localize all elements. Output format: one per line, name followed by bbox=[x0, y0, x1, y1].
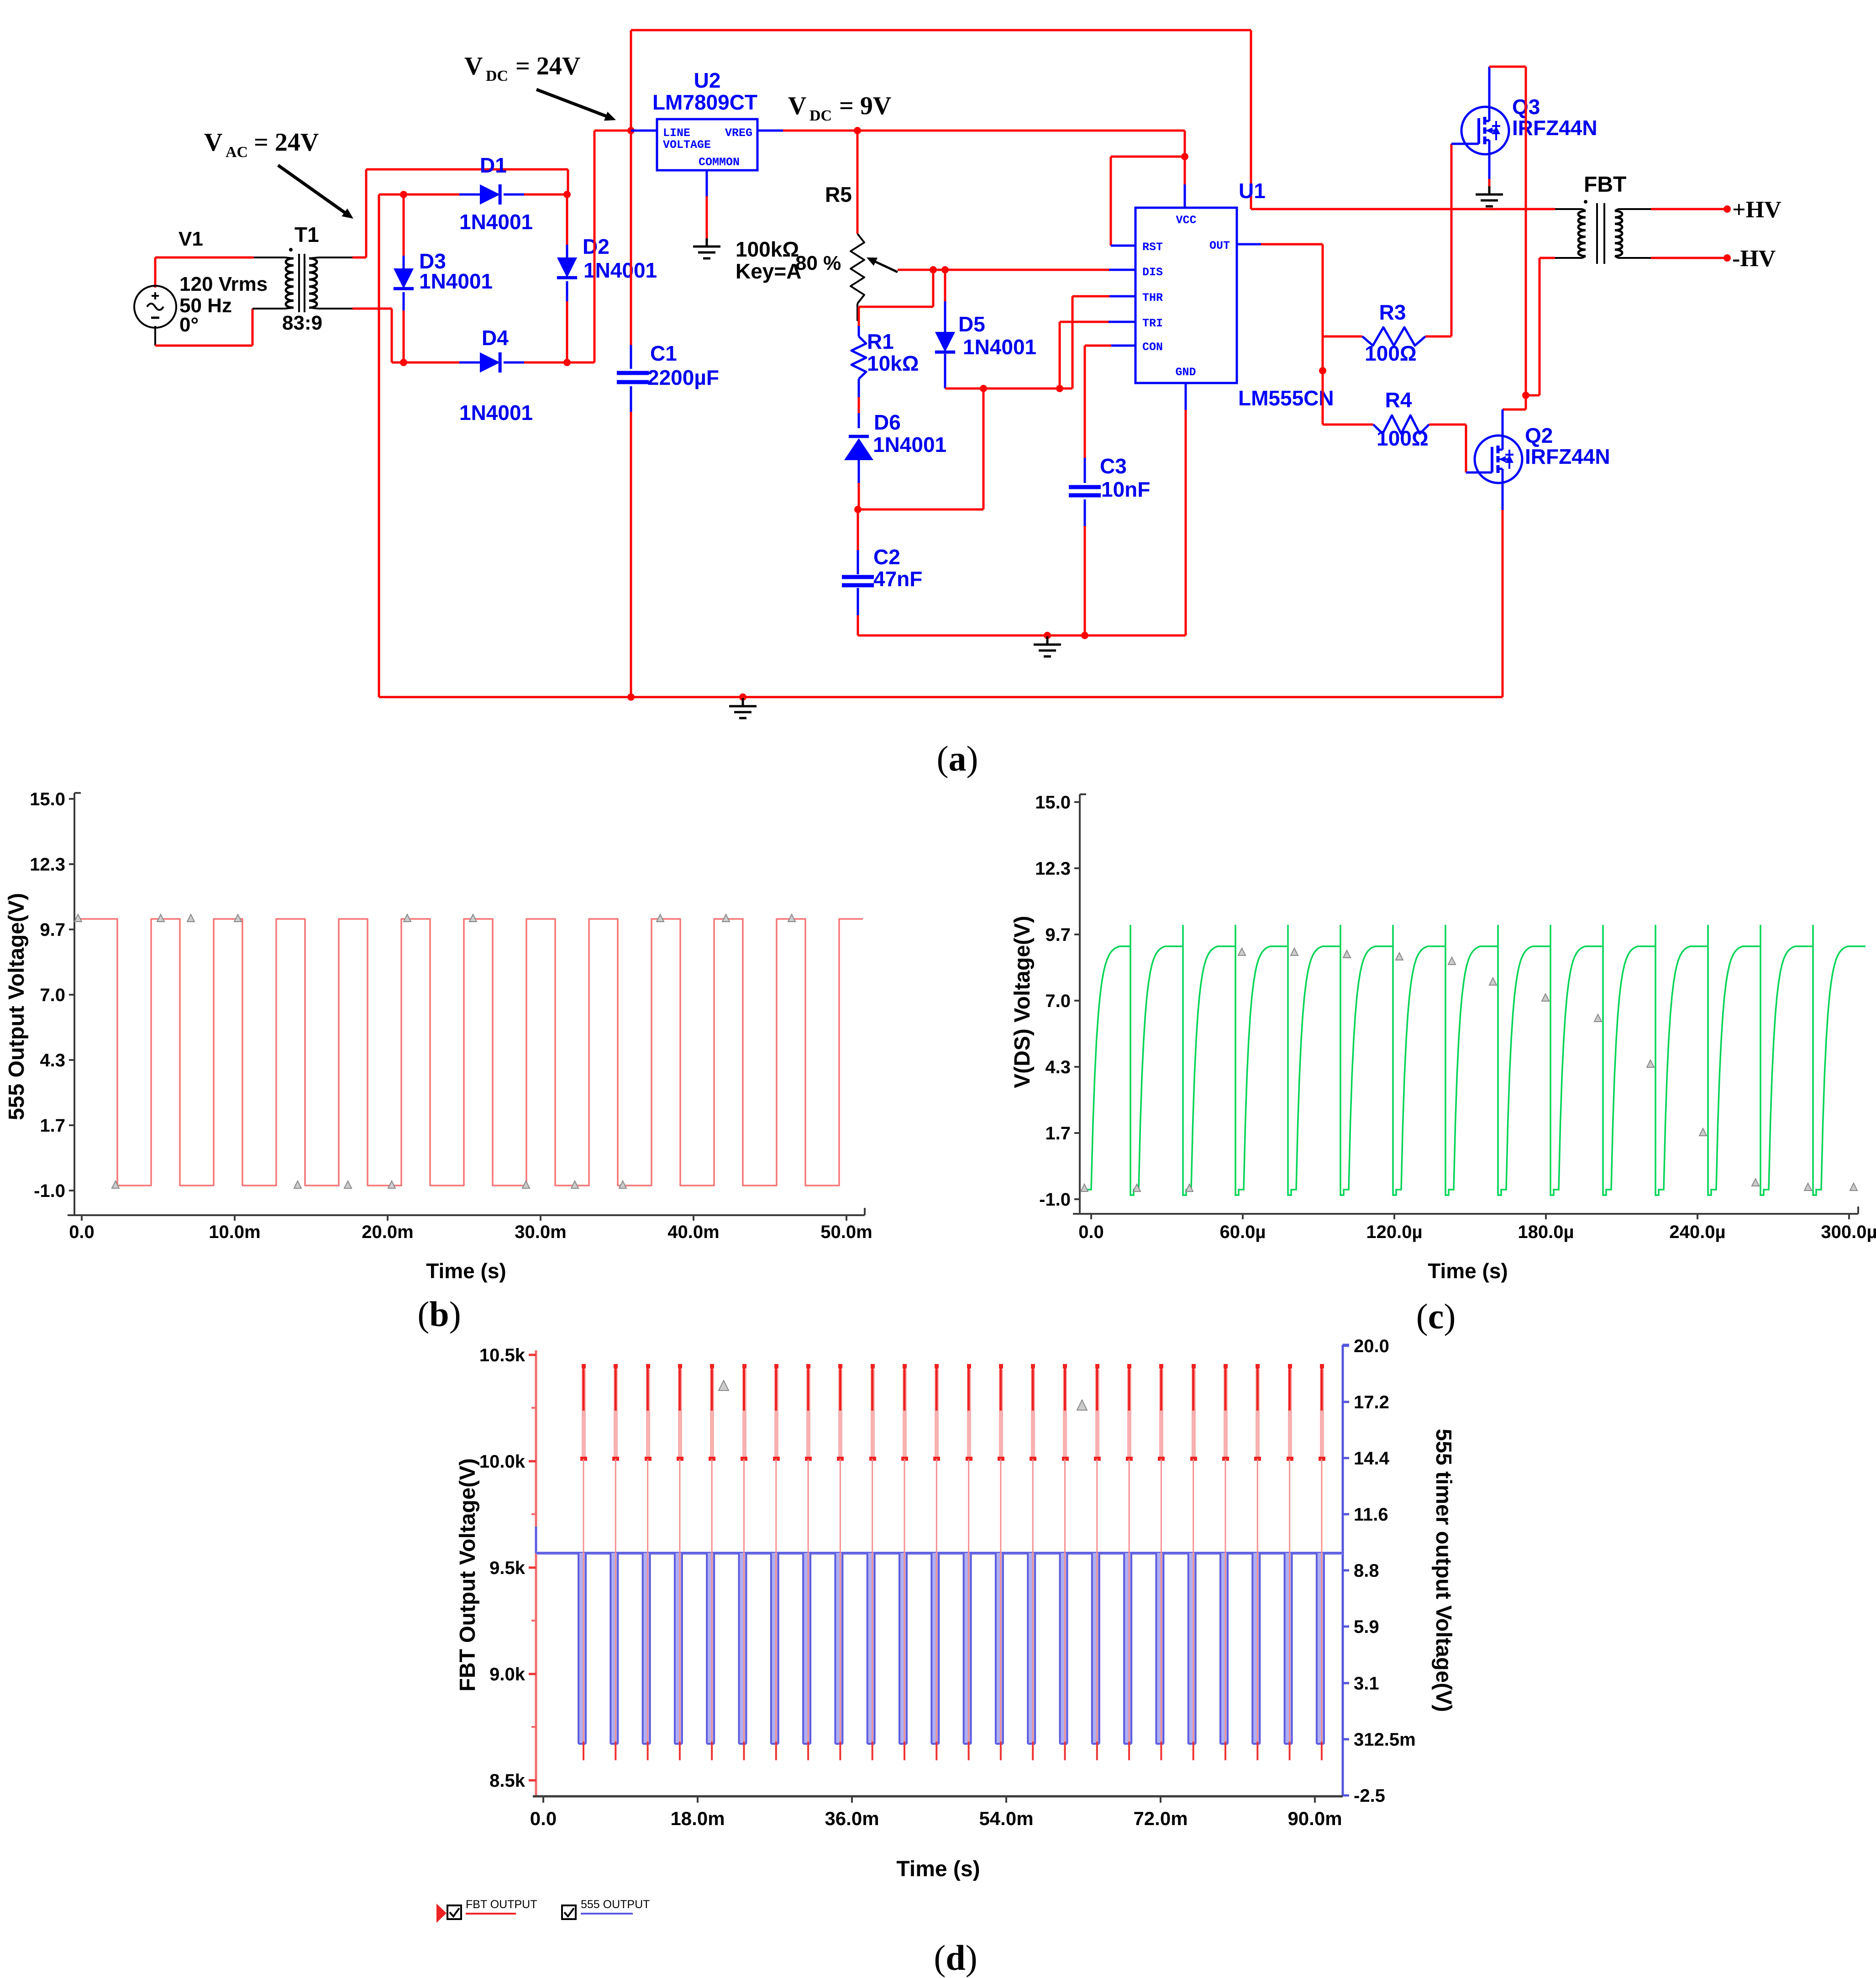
wire: junction to Q2 drain bbox=[1525, 395, 1527, 409]
svg-text:2200µF: 2200µF bbox=[647, 366, 719, 389]
svg-text:18.0m: 18.0m bbox=[670, 1808, 725, 1829]
svg-text:FBT Output Voltage(V): FBT Output Voltage(V) bbox=[456, 1458, 480, 1691]
plot d: right axis (blue) bbox=[1342, 1345, 1344, 1796]
svg-text:12.3: 12.3 bbox=[30, 855, 65, 875]
svg-text:-2.5: -2.5 bbox=[1354, 1786, 1385, 1806]
svg-text:10.5k: 10.5k bbox=[479, 1345, 525, 1365]
svg-text:1N4001: 1N4001 bbox=[873, 433, 946, 456]
svg-text:(a): (a) bbox=[937, 739, 978, 778]
svg-text:72.0m: 72.0m bbox=[1133, 1808, 1188, 1829]
resistor R1 bbox=[851, 336, 866, 379]
svg-text:COMMON: COMMON bbox=[699, 156, 740, 169]
source V1 bbox=[134, 286, 176, 328]
wire: +HV output bbox=[1651, 208, 1727, 210]
wire: Q3 source to ground bbox=[1488, 154, 1491, 179]
ground Q3 bbox=[1488, 186, 1491, 194]
svg-text:R5: R5 bbox=[825, 183, 852, 206]
svg-text:LM7809CT: LM7809CT bbox=[652, 90, 757, 114]
svg-text:47nF: 47nF bbox=[873, 567, 922, 591]
svg-text:4.3: 4.3 bbox=[40, 1050, 65, 1070]
svg-text:5.9: 5.9 bbox=[1354, 1617, 1379, 1637]
svg-text:VOLTAGE: VOLTAGE bbox=[663, 138, 711, 152]
plot d: FBT output trace (red) bbox=[582, 1369, 586, 1459]
svg-text:10.0k: 10.0k bbox=[479, 1452, 525, 1472]
svg-text:8.8: 8.8 bbox=[1354, 1561, 1379, 1581]
wire: D6 to junction bbox=[858, 460, 860, 483]
svg-text:C2: C2 bbox=[873, 545, 900, 569]
svg-text:9.7: 9.7 bbox=[40, 920, 65, 940]
wire: V1 bottom to T1 primary bottom bbox=[154, 326, 156, 346]
ground on C2/C3 rail bbox=[1046, 636, 1049, 645]
svg-text:U2: U2 bbox=[694, 68, 721, 92]
svg-text:312.5m: 312.5m bbox=[1354, 1730, 1416, 1750]
svg-text:9.0k: 9.0k bbox=[489, 1664, 525, 1684]
wire: U2 VREG output 9V rail bbox=[757, 130, 783, 132]
wire: D6 junction across to THR/TRI rail riser bbox=[858, 509, 983, 511]
svg-text:RST: RST bbox=[1142, 241, 1163, 254]
svg-text:Q2: Q2 bbox=[1525, 424, 1553, 447]
svg-text:Time (s): Time (s) bbox=[1428, 1259, 1508, 1283]
svg-text:V: V bbox=[464, 52, 483, 80]
wire: THR pin bbox=[1072, 296, 1074, 388]
node on ground rail bbox=[627, 693, 635, 701]
capacitor C2 bbox=[842, 575, 874, 579]
svg-text:8.5k: 8.5k bbox=[489, 1771, 525, 1791]
svg-text:100Ω: 100Ω bbox=[1377, 426, 1429, 450]
wire: 555 GND drop bbox=[1185, 383, 1187, 410]
wire: V1 top to T1 primary top bbox=[154, 257, 157, 288]
svg-text:555 timer output Voltage(V): 555 timer output Voltage(V) bbox=[1431, 1429, 1456, 1712]
svg-text:180.0µ: 180.0µ bbox=[1518, 1222, 1574, 1242]
svg-text:FBT: FBT bbox=[1584, 173, 1626, 197]
wire: Q3 drain loop bbox=[1488, 67, 1491, 107]
wire: node to R1 bbox=[932, 270, 935, 307]
svg-text:1N4001: 1N4001 bbox=[459, 401, 533, 425]
svg-text:100kΩ: 100kΩ bbox=[736, 237, 799, 261]
wire: main VDC=24V vertical with C1 bbox=[630, 30, 632, 131]
svg-text:0.0: 0.0 bbox=[69, 1222, 95, 1242]
svg-text:+HV: +HV bbox=[1732, 197, 1781, 223]
diode D5 with column bbox=[944, 270, 946, 301]
svg-text:D4: D4 bbox=[482, 326, 509, 350]
svg-text:120 Vrms: 120 Vrms bbox=[179, 273, 268, 295]
svg-text:T1: T1 bbox=[294, 223, 319, 247]
plot b: x-axis bbox=[68, 1214, 865, 1216]
plot b: y-axis bbox=[74, 793, 75, 1215]
wire: CON pin to C3 bbox=[1111, 345, 1135, 347]
svg-text:60.0µ: 60.0µ bbox=[1220, 1222, 1266, 1242]
svg-text:-1.0: -1.0 bbox=[1039, 1190, 1071, 1210]
svg-text:V: V bbox=[204, 128, 222, 157]
capacitor C1 bbox=[617, 371, 649, 375]
svg-text:20.0: 20.0 bbox=[1354, 1336, 1389, 1356]
svg-text:4.3: 4.3 bbox=[1045, 1057, 1071, 1077]
svg-text:50.0m: 50.0m bbox=[820, 1222, 872, 1242]
svg-text:0°: 0° bbox=[179, 314, 199, 336]
diode D3 bbox=[394, 268, 414, 289]
svg-text:30.0m: 30.0m bbox=[515, 1222, 566, 1242]
transistor Q3 bbox=[1461, 107, 1509, 154]
svg-text:-HV: -HV bbox=[1732, 246, 1776, 272]
svg-text:DC: DC bbox=[486, 68, 508, 84]
wire: wiper to DIS pin bbox=[898, 269, 1109, 271]
wire: VCC supply from 9V rail bbox=[1184, 131, 1186, 157]
svg-text:240.0µ: 240.0µ bbox=[1669, 1222, 1725, 1242]
svg-text:V1: V1 bbox=[179, 228, 203, 250]
svg-text:15.0: 15.0 bbox=[1035, 792, 1071, 813]
plot d: markers bbox=[719, 1380, 729, 1390]
svg-text:20.0m: 20.0m bbox=[362, 1222, 413, 1242]
wire: RST loop bbox=[1111, 156, 1185, 158]
diode D6 bbox=[849, 435, 869, 438]
wire: T1 secondary bottom to bridge bottom-left bbox=[319, 308, 352, 310]
diode D4 bbox=[480, 352, 500, 373]
svg-text:LINE: LINE bbox=[663, 126, 690, 140]
svg-text:FBT OUTPUT: FBT OUTPUT bbox=[466, 1898, 537, 1911]
svg-text:10nF: 10nF bbox=[1101, 477, 1150, 501]
plot d: legend 555 OUTPUT bbox=[562, 1905, 576, 1919]
svg-text:0.0: 0.0 bbox=[1078, 1222, 1104, 1242]
svg-text:80 %: 80 % bbox=[795, 252, 841, 274]
svg-text:0.0: 0.0 bbox=[530, 1808, 557, 1829]
arrow for VAC bbox=[278, 165, 346, 213]
svg-text:(c): (c) bbox=[1416, 1296, 1456, 1336]
svg-text:120.0µ: 120.0µ bbox=[1366, 1222, 1422, 1242]
svg-text:(d): (d) bbox=[934, 1938, 977, 1978]
plot b: markers bbox=[74, 914, 82, 922]
svg-text:D6: D6 bbox=[874, 410, 901, 434]
svg-text:R3: R3 bbox=[1379, 300, 1406, 324]
timer U1 LM555CN box bbox=[1135, 208, 1237, 383]
wire: -HV output bbox=[1651, 257, 1727, 259]
R5 wiper arrow bbox=[870, 259, 898, 272]
svg-text:THR: THR bbox=[1142, 291, 1163, 304]
transistor Q2 bbox=[1475, 435, 1522, 483]
wire: U2 COMMON to ground bbox=[706, 170, 708, 196]
wire: FBT primary bottom to drain junction bbox=[1540, 257, 1555, 259]
wire: T1 secondary top outer loop to bridge bbox=[319, 257, 352, 258]
diode D1 bbox=[480, 184, 500, 205]
plot c: markers bbox=[1081, 1184, 1088, 1191]
svg-text:IRFZ44N: IRFZ44N bbox=[1525, 445, 1610, 468]
svg-text:AC: AC bbox=[226, 144, 248, 161]
svg-text:Key=A: Key=A bbox=[736, 259, 801, 283]
svg-text:54.0m: 54.0m bbox=[979, 1808, 1033, 1829]
svg-text:V: V bbox=[788, 92, 806, 120]
svg-text:100Ω: 100Ω bbox=[1365, 341, 1417, 365]
svg-text:1N4001: 1N4001 bbox=[963, 335, 1036, 359]
svg-text:C3: C3 bbox=[1100, 454, 1127, 478]
wire: schematic bottom ground rail bbox=[379, 696, 1503, 698]
svg-text:= 9V: = 9V bbox=[839, 92, 891, 120]
svg-text:1.7: 1.7 bbox=[1045, 1123, 1071, 1144]
svg-text:VREG: VREG bbox=[725, 126, 752, 140]
resistor R3 bbox=[1323, 336, 1362, 338]
svg-text:40.0m: 40.0m bbox=[667, 1222, 719, 1242]
plot c: V(DS) trace bbox=[1084, 925, 1865, 1195]
svg-text:CON: CON bbox=[1142, 341, 1163, 354]
svg-text:17.2: 17.2 bbox=[1354, 1392, 1389, 1412]
svg-text:1N4001: 1N4001 bbox=[419, 269, 493, 293]
svg-text:= 24V: = 24V bbox=[254, 128, 319, 157]
wire: top 24V rail to flyback bbox=[631, 29, 1251, 31]
wire: bridge right rail bbox=[566, 194, 568, 245]
svg-text:7.0: 7.0 bbox=[1045, 991, 1071, 1011]
wire: TRI pin bbox=[1059, 322, 1061, 388]
svg-text:10kΩ: 10kΩ bbox=[867, 352, 919, 375]
svg-text:GND: GND bbox=[1175, 366, 1196, 379]
wire: Q2 source to ground rail bbox=[1502, 483, 1504, 510]
svg-text:= 24V: = 24V bbox=[515, 52, 580, 80]
svg-text:D1: D1 bbox=[480, 153, 507, 177]
svg-text:555 Output Voltage(V): 555 Output Voltage(V) bbox=[5, 893, 29, 1120]
svg-text:300.0µ: 300.0µ bbox=[1821, 1222, 1876, 1242]
svg-text:C1: C1 bbox=[650, 341, 677, 365]
svg-text:VCC: VCC bbox=[1176, 214, 1196, 227]
svg-text:15.0: 15.0 bbox=[30, 789, 65, 809]
wire: U2 input bbox=[631, 130, 657, 132]
svg-text:D5: D5 bbox=[958, 312, 985, 336]
svg-text:1.7: 1.7 bbox=[40, 1116, 65, 1136]
plot d: legend FBT OUTPUT bbox=[436, 1904, 447, 1923]
svg-text:3.1: 3.1 bbox=[1354, 1674, 1379, 1694]
svg-text:12.3: 12.3 bbox=[1035, 859, 1071, 879]
plot c: y-axis bbox=[1079, 794, 1081, 1214]
svg-text:9.5k: 9.5k bbox=[489, 1558, 525, 1578]
svg-text:DC: DC bbox=[809, 107, 832, 124]
svg-text:R1: R1 bbox=[867, 330, 894, 353]
svg-text:36.0m: 36.0m bbox=[825, 1808, 879, 1829]
svg-text:DIS: DIS bbox=[1142, 266, 1163, 279]
wire: bridge bottom rail bbox=[404, 362, 459, 364]
potentiometer R5 bbox=[854, 127, 861, 134]
wire: bridge negative output to ground rail bbox=[379, 194, 404, 196]
svg-text:555 OUTPUT: 555 OUTPUT bbox=[581, 1898, 650, 1911]
wire: R3 to Q3 gate bbox=[1450, 144, 1453, 336]
svg-text:90.0m: 90.0m bbox=[1287, 1808, 1342, 1829]
svg-text:14.4: 14.4 bbox=[1354, 1448, 1390, 1469]
plot d: x-axis bbox=[533, 1795, 1343, 1798]
plot b: 555 square wave trace bbox=[76, 919, 863, 1186]
svg-text:7.0: 7.0 bbox=[40, 985, 65, 1005]
wire: D5/THR/TRI rail bbox=[945, 388, 1072, 390]
capacitor C3 bbox=[1069, 485, 1101, 489]
svg-text:-1.0: -1.0 bbox=[34, 1181, 65, 1201]
plot d: left axis (red) bbox=[535, 1350, 537, 1796]
svg-text:R4: R4 bbox=[1385, 388, 1412, 412]
svg-text:Time (s): Time (s) bbox=[896, 1857, 980, 1881]
svg-text:11.6: 11.6 bbox=[1354, 1505, 1388, 1525]
wire: bridge positive output up to VDC node bbox=[567, 362, 594, 364]
wire: bridge left rail bbox=[403, 194, 405, 256]
node: bridge junctions bbox=[400, 191, 407, 198]
svg-text:Time (s): Time (s) bbox=[426, 1259, 506, 1283]
svg-text:V(DS) Voltage(V): V(DS) Voltage(V) bbox=[1010, 916, 1035, 1088]
wire: R1 to D6 bbox=[858, 379, 860, 397]
svg-text:(b): (b) bbox=[417, 1294, 461, 1334]
svg-text:OUT: OUT bbox=[1209, 239, 1230, 252]
node: drain junction bbox=[1522, 392, 1529, 399]
svg-text:TRI: TRI bbox=[1142, 317, 1163, 330]
svg-text:1N4001: 1N4001 bbox=[459, 210, 533, 234]
regulator U2 bbox=[657, 119, 757, 170]
wire: R4 to Q2 gate bbox=[1465, 425, 1467, 472]
svg-text:9.7: 9.7 bbox=[1045, 925, 1071, 945]
plot c: x-axis bbox=[1073, 1213, 1858, 1215]
svg-text:U1: U1 bbox=[1239, 179, 1266, 203]
wire: C2 column bbox=[857, 509, 859, 550]
ground U2 bbox=[706, 238, 708, 247]
resistor R4 bbox=[1323, 424, 1373, 426]
diode D2 bbox=[557, 257, 577, 278]
arrow for VDC bbox=[536, 89, 608, 117]
plot d: 555 output trace (blue) bbox=[535, 1527, 537, 1553]
wire: C2/C3 ground rail bbox=[858, 635, 1186, 637]
ground: main rail bbox=[742, 698, 744, 706]
svg-text:LM555CN: LM555CN bbox=[1238, 386, 1334, 410]
wire: bridge top rail bbox=[404, 194, 459, 196]
svg-text:83:9: 83:9 bbox=[282, 312, 322, 334]
wire: OUT pin down bbox=[1237, 243, 1261, 246]
svg-text:10.0m: 10.0m bbox=[209, 1222, 260, 1242]
node at U2 input bbox=[627, 127, 635, 134]
svg-text:D2: D2 bbox=[583, 235, 610, 258]
